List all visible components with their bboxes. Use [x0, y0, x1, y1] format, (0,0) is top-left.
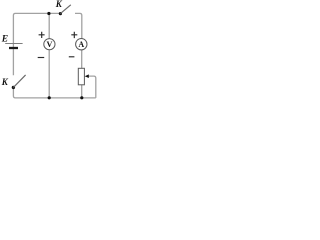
- voltmeter plus sign: [39, 32, 45, 38]
- wire top-right fixed contact to corner and down to ammeter: [75, 13, 82, 38]
- rheostat R body: [78, 68, 84, 85]
- svg-text:V: V: [46, 40, 52, 49]
- svg-text:E: E: [1, 35, 8, 45]
- ammeter minus sign: [69, 56, 75, 58]
- node: bottom junction of rheostat lead: [80, 96, 83, 99]
- switch K top: pivot dot: [59, 12, 62, 15]
- svg-text:K: K: [55, 0, 63, 9]
- switch K bottom: pivot dot: [12, 86, 15, 89]
- switch K top: blade: [60, 5, 70, 14]
- voltmeter U1 circle: [44, 39, 55, 50]
- svg-text:A: A: [78, 40, 84, 49]
- wire top-left loop: left + top: [13, 13, 60, 75]
- node: bottom junction of voltmeter branch: [48, 96, 51, 99]
- wire voltmeter bottom branch: [48, 50, 50, 98]
- battery E long plate: [5, 43, 22, 45]
- wire resistor bottom lead: [81, 85, 83, 98]
- rheostat wiper arrowhead: [85, 74, 89, 78]
- svg-text:K: K: [1, 77, 9, 87]
- switch K bottom: blade: [13, 75, 25, 88]
- ammeter plus sign: [71, 32, 77, 38]
- switch K top: junction dot (voltmeter tap): [47, 12, 50, 15]
- wire bottom: [13, 87, 95, 98]
- wire wiper horizontal and right vertical: [88, 76, 96, 98]
- wire voltmeter top branch: [48, 13, 50, 38]
- ammeter U2 circle: [76, 39, 87, 50]
- battery E short plate: [9, 47, 18, 49]
- wire ammeter bottom to resistor top: [81, 50, 83, 69]
- voltmeter minus sign: [38, 57, 45, 59]
